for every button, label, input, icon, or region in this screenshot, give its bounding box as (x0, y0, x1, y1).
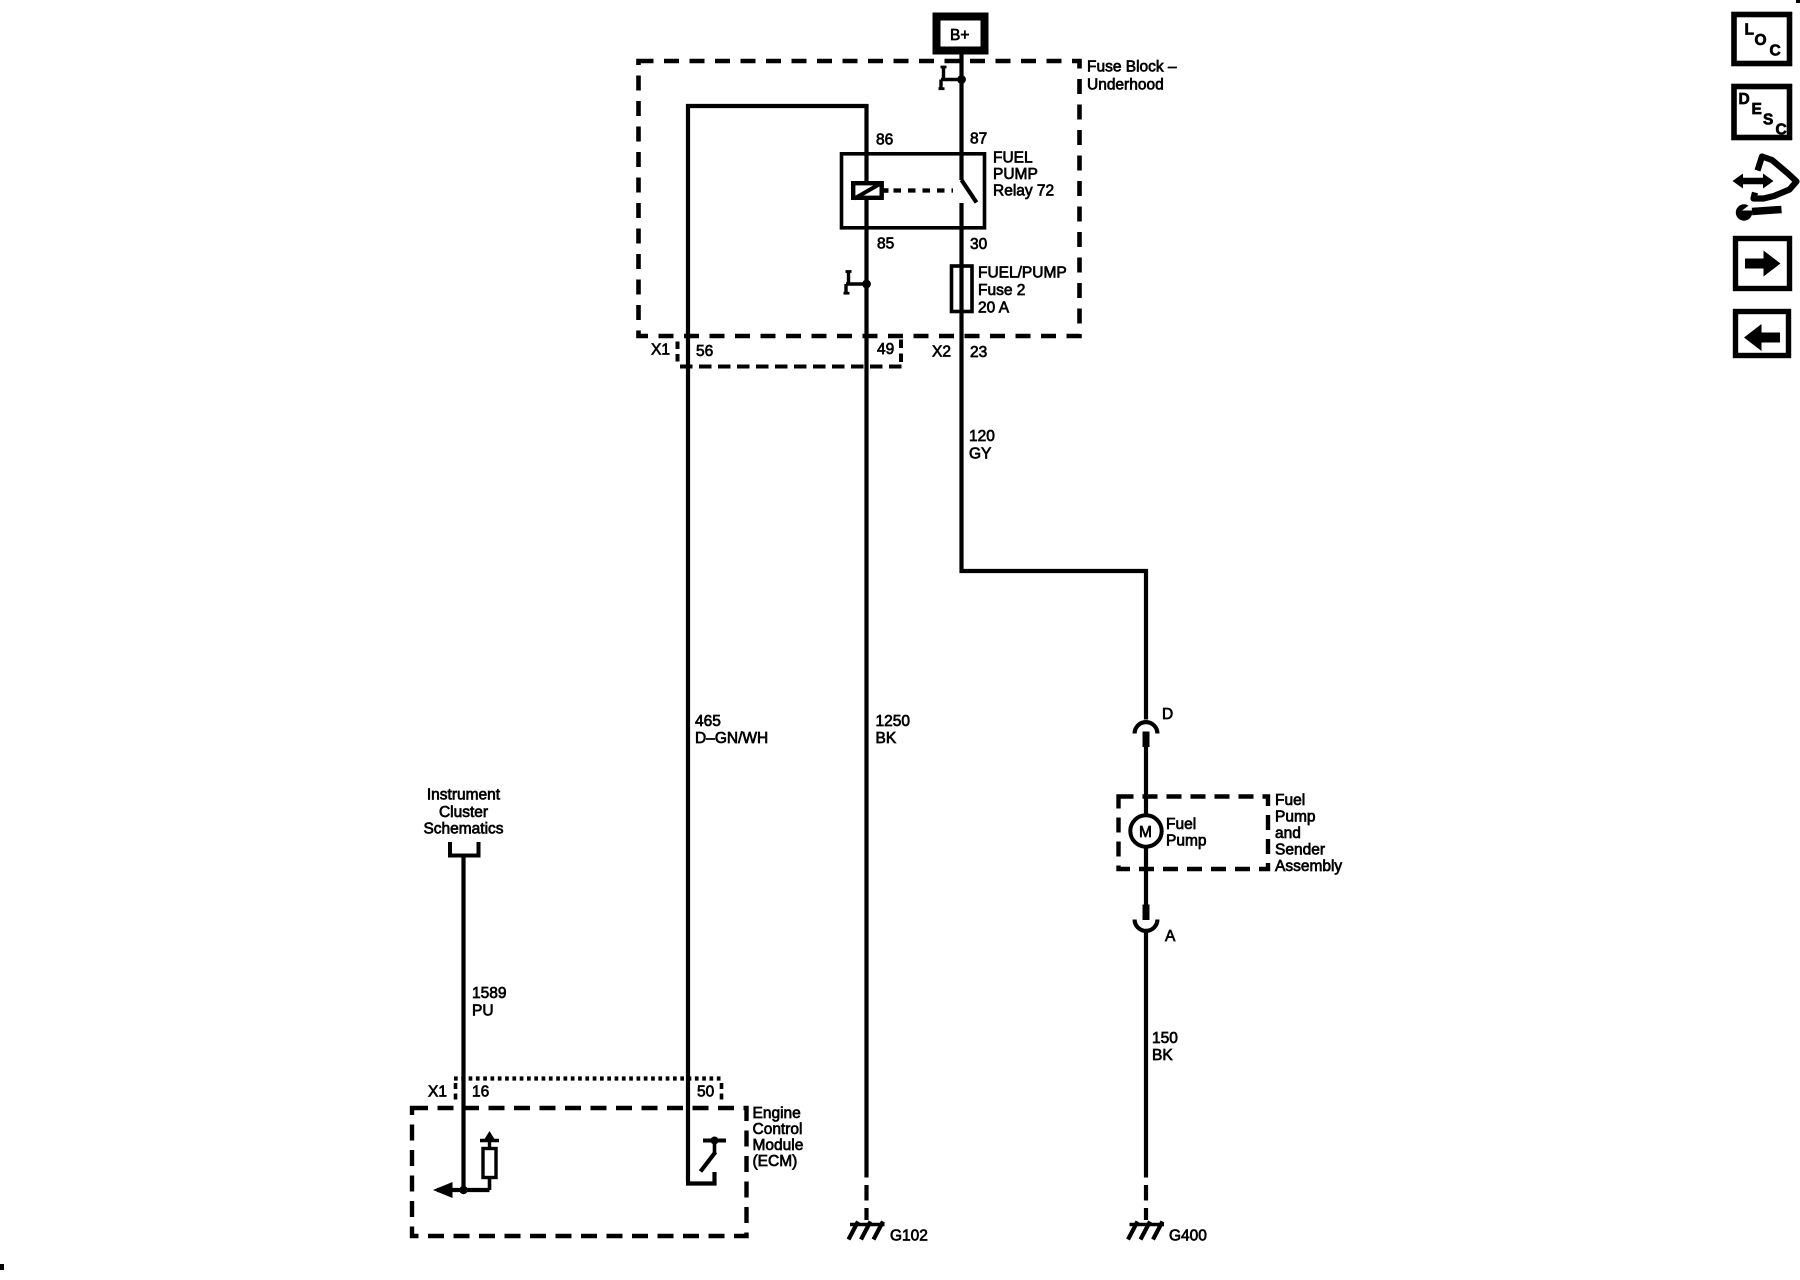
svg-text:PU: PU (472, 1003, 494, 1020)
svg-text:Sender: Sender (1275, 842, 1325, 859)
svg-text:(ECM): (ECM) (753, 1153, 798, 1170)
svg-text:150: 150 (1152, 1030, 1178, 1047)
svg-text:Schematics: Schematics (423, 821, 503, 838)
svg-text:120: 120 (969, 428, 995, 445)
svg-text:C: C (1770, 43, 1781, 60)
svg-text:G102: G102 (890, 1228, 928, 1245)
svg-text:30: 30 (970, 236, 988, 253)
svg-text:20 A: 20 A (978, 300, 1010, 317)
svg-text:Relay 72: Relay 72 (993, 183, 1054, 200)
svg-text:Cluster: Cluster (439, 804, 488, 821)
svg-text:and: and (1275, 825, 1301, 842)
svg-text:D–GN/WH: D–GN/WH (695, 730, 768, 747)
svg-text:85: 85 (877, 236, 894, 253)
svg-text:Pump: Pump (1166, 833, 1207, 850)
svg-text:1589: 1589 (472, 985, 506, 1002)
svg-text:Fuel: Fuel (1275, 792, 1305, 809)
svg-text:16: 16 (472, 1084, 489, 1101)
svg-text:Fuel: Fuel (1166, 816, 1196, 833)
svg-text:M: M (1139, 824, 1152, 841)
svg-text:S: S (1763, 112, 1773, 129)
svg-text:86: 86 (876, 132, 893, 149)
svg-text:Control: Control (753, 1121, 803, 1138)
svg-text:B+: B+ (950, 27, 969, 44)
svg-text:A: A (1165, 928, 1176, 945)
svg-text:E: E (1752, 101, 1762, 118)
svg-text:50: 50 (697, 1084, 715, 1101)
svg-text:Fuse 2: Fuse 2 (978, 282, 1025, 299)
svg-text:Module: Module (753, 1137, 804, 1154)
svg-text:X1: X1 (651, 342, 670, 359)
svg-text:Underhood: Underhood (1087, 77, 1164, 94)
svg-text:X1: X1 (428, 1084, 447, 1101)
svg-text:56: 56 (696, 343, 713, 360)
svg-text:Pump: Pump (1275, 809, 1316, 826)
svg-text:O: O (1755, 32, 1767, 49)
svg-text:23: 23 (970, 344, 987, 361)
svg-text:Assembly: Assembly (1275, 858, 1342, 875)
svg-text:BK: BK (1152, 1047, 1173, 1064)
svg-text:BK: BK (876, 730, 897, 747)
svg-text:X2: X2 (932, 344, 951, 361)
svg-text:GY: GY (969, 446, 991, 463)
svg-text:465: 465 (695, 713, 721, 730)
svg-text:FUEL: FUEL (993, 150, 1033, 167)
svg-text:D: D (1162, 706, 1173, 723)
svg-text:Fuse Block –: Fuse Block – (1087, 59, 1177, 76)
svg-text:49: 49 (877, 341, 894, 358)
svg-text:C: C (1776, 122, 1787, 139)
svg-text:1250: 1250 (876, 713, 911, 730)
svg-text:87: 87 (970, 131, 987, 148)
svg-text:G400: G400 (1169, 1228, 1207, 1245)
svg-text:PUMP: PUMP (993, 166, 1038, 183)
svg-text:Engine: Engine (753, 1105, 801, 1122)
svg-text:L: L (1745, 22, 1754, 39)
svg-text:FUEL/PUMP: FUEL/PUMP (978, 265, 1067, 282)
svg-text:D: D (1739, 91, 1750, 108)
svg-text:Instrument: Instrument (427, 787, 501, 804)
